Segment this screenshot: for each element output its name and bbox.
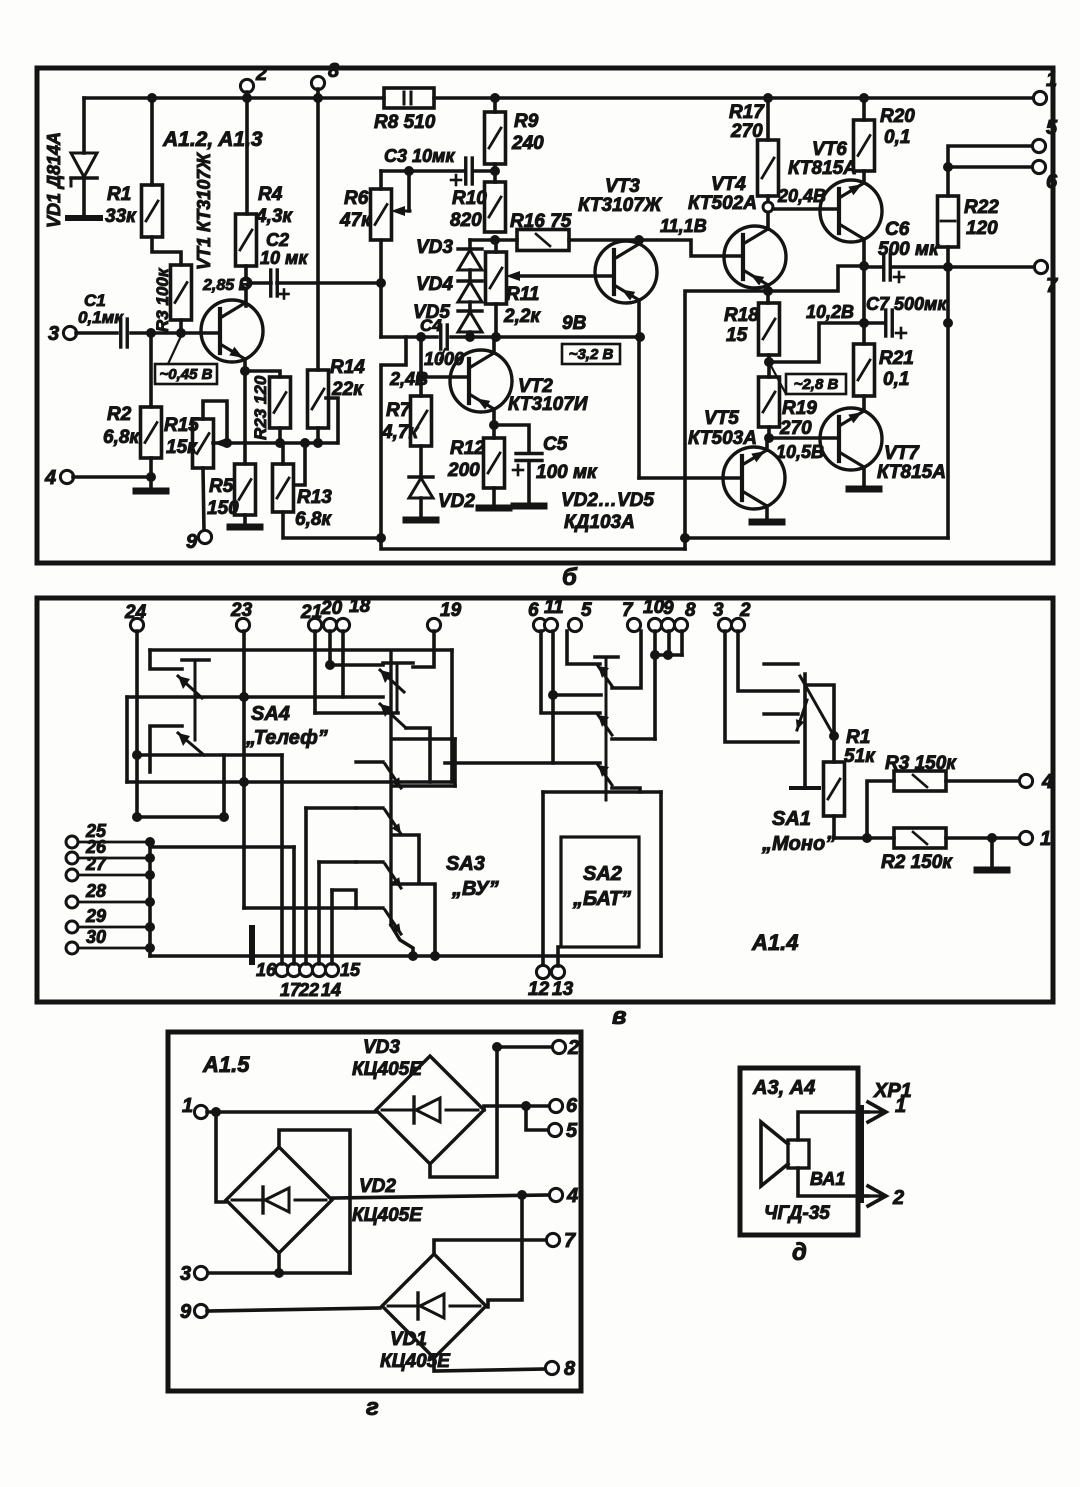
wire R6 wiper [407,171,411,211]
wire C2 left to VT1 collector node [250,281,271,285]
wire t18 vertical [341,631,345,697]
svg-text:5: 5 [1046,117,1058,139]
node rail-R20 [859,93,869,103]
node t11-695 [548,690,558,700]
terminal 20 (top) [323,618,336,631]
wire y808 [306,806,356,810]
svg-text:C5: C5 [543,434,568,455]
wire R11 bottom [494,304,498,337]
wire C7 left [864,321,883,325]
svg-text:28: 28 [85,881,106,901]
node t5 branch [521,1101,531,1111]
capacitor C5 100мк [516,452,542,455]
svg-text:7: 7 [564,1230,576,1252]
node t1 [211,1107,221,1117]
terminal 7 [1034,260,1047,273]
zener diode VD1 Д814А [82,98,86,153]
wire R6 bottom down feedback column [379,240,383,337]
resistor R2 6,8к [141,407,162,458]
wire output midpoint run [685,266,864,549]
wire t29 to common [78,926,150,929]
wire VD1 bottom to terminal 8 [434,1358,546,1371]
wire emitter to R12 [492,425,496,438]
wire R23 bottom [278,428,282,443]
svg-text:SA2: SA2 [583,863,622,885]
resistor R3 100к (vertical, rotated label) [171,265,192,320]
terminal 19 (top) [427,618,440,631]
connector XP1 pin 1 arrow [862,1110,884,1113]
svg-text:2,4В: 2,4В [389,369,428,389]
svg-text:КТ3107И: КТ3107И [508,394,588,415]
wire emitter node to R23 [245,371,280,377]
wire VT4 collector down [766,285,770,303]
svg-text:~0,45 В: ~0,45 В [160,366,213,383]
node R1 top [829,731,839,741]
svg-text:VD2: VD2 [359,1176,396,1197]
wire y817 [137,815,224,819]
wire t13 vertical [556,947,560,966]
wire SA3 return L3 [394,884,435,956]
svg-text:270: 270 [730,121,763,142]
wire R4 to VT1 collector [244,266,248,306]
wire stack common vertical [148,842,152,956]
terminal 4 (A1.5) [549,1188,562,1201]
svg-text:200: 200 [447,460,480,481]
svg-text:1: 1 [1040,828,1051,850]
node C3-R10 [490,166,500,176]
wire R22 top to terminals 5,6 [948,146,1033,196]
terminal 12 [536,965,549,978]
wire R1 bottom to R3 top [152,237,181,265]
node feedback join [376,533,386,543]
svg-text:R15: R15 [164,415,199,436]
wire x127 left loop [125,697,129,782]
svg-text:R4: R4 [258,184,283,205]
switch SA3 contact a [356,760,383,763]
node R11-bus [491,332,501,342]
svg-text:12: 12 [528,979,550,1000]
svg-text:4,7к: 4,7к [381,422,419,443]
terminal 23 (top) [236,618,249,631]
svg-text:18: 18 [349,596,371,617]
node t24-755 [132,750,142,760]
resistor R19 270 [759,377,780,427]
block A3,A4 border (section д) [740,1068,858,1235]
wire VT7 base [769,436,839,440]
ground (section в) [977,867,1007,874]
svg-text:10 мк: 10 мк [260,248,308,268]
resistor R22 120 [938,196,959,247]
bridge rectifier VD2 КЦ405Е [226,1147,332,1253]
wire VT2 base [421,375,469,379]
wire R7 to VD2 [419,446,423,477]
node R10 bottom [490,235,500,245]
wire t3 to C1 [76,331,117,335]
svg-text:R2: R2 [107,404,132,425]
wire R13 bottom to feedback line [283,512,381,538]
wire VT1 base column to R2 [149,333,153,407]
svg-text:КТ815А: КТ815А [788,158,857,179]
svg-text:VD2: VD2 [438,491,475,512]
wire VT3 emitter up [637,240,641,244]
node t28 [145,897,155,907]
node rail-t8 [313,93,323,103]
node rail-R9 [490,93,500,103]
wire R2 to terminal 1 [946,836,1020,840]
wire to ground [990,838,994,868]
wire VT3 base [520,274,614,278]
wire t10 vertical [653,631,657,739]
wire bottom feedback to x685 column [687,536,948,540]
resistor R23 120 (rotated label) [270,377,291,428]
resistor R3 150к [894,771,946,791]
voltage callout ~3,2В [562,344,620,364]
svg-text:8: 8 [328,60,340,82]
svg-text:6: 6 [1046,171,1058,193]
transistor VT5 КТ503А [723,447,785,509]
svg-text:240: 240 [511,133,544,154]
node VT3 emitter [634,235,644,245]
switch SA4 lever 2 [178,733,204,755]
terminal 6 (A1.5) [549,1099,562,1112]
svg-text:VD1: VD1 [390,1329,427,1350]
svg-text:КТ503А: КТ503А [688,428,757,449]
wire R18-R19 node [767,355,771,377]
wire R1 to rail [150,98,154,185]
wire C1 to VT1 base [131,331,220,335]
transistor VT2 КТ3107И [450,350,512,412]
svg-text:270: 270 [779,418,812,439]
ground below R2 [136,488,166,495]
svg-text:29: 29 [85,906,106,926]
wire R11 top [494,240,498,252]
node t25 [145,837,155,847]
wire VD5 to bus337 [468,332,472,337]
terminal 14 (bottom) [312,963,325,976]
wire R20 to VT6 collector [862,171,866,183]
svg-text:820: 820 [450,210,482,231]
wire t17 vertical [292,847,296,964]
terminal 5 (top) [568,618,581,631]
terminal 16 (bottom) [275,963,288,976]
svg-text:КЦ405Е: КЦ405Е [380,1351,451,1372]
svg-text:R10: R10 [452,188,487,209]
svg-text:R9: R9 [514,111,539,132]
wire C6 left [864,265,883,269]
svg-text:A1.4: A1.4 [751,930,798,955]
switch SA1 fixed contact stubs [764,662,798,665]
wire t15 vertical [330,890,334,964]
switch SA2 pole [605,657,608,800]
wire vertical x948 down to bottom feedback [946,267,950,538]
svg-text:ЧГД-35: ЧГД-35 [764,1203,830,1224]
switch SA3 pole [389,651,392,925]
svg-text:4: 4 [566,1185,578,1207]
wire C5 to ground [527,461,531,504]
svg-text:А3, А4: А3, А4 [752,1077,815,1099]
capacitor C7 500мк [884,310,887,336]
wire VD3 right to terminal 6 [484,1106,550,1110]
svg-text:VD1 Д814А: VD1 Д814А [44,132,64,228]
wire x150 upper segment [148,755,152,772]
wire terminal8 down to R14 [316,89,320,370]
wire t11 vertical [551,631,555,763]
capacitor C2 10мк [269,270,272,296]
wire t27 to common [78,874,150,877]
terminal 4 [60,470,73,483]
wire SA4 bus hook to contact1 [150,650,182,669]
wire R21 to VT7 collector [862,396,866,411]
svg-text:24: 24 [124,602,147,623]
switch SA3 contact b [356,806,383,809]
svg-text:2,2к: 2,2к [503,306,541,327]
terminal 26 [66,852,78,864]
svg-text:R16 75: R16 75 [510,211,572,232]
wire node to C7 jog [769,323,864,362]
wire to terminal 2 [497,1045,553,1049]
resistor R9 240 [485,112,506,164]
diode VD4 [468,270,472,281]
terminal 4 (right) [1019,774,1032,787]
svg-text:3: 3 [180,1263,191,1285]
svg-text:C4: C4 [420,316,442,335]
wire VT3 to VT4 base [639,240,742,256]
svg-text:VT6: VT6 [812,139,847,160]
svg-text:27: 27 [85,854,107,874]
svg-text:8: 8 [685,600,696,621]
svg-text:R6: R6 [344,188,369,209]
wire VD1 top to terminal 7 [434,1240,547,1254]
transistor VT7 КТ815А [820,408,882,470]
wire t23 bottom hook [244,906,356,910]
node t24-817 [132,812,142,822]
bridge rectifier VD1 КЦ405Е [382,1254,486,1358]
terminal 1 [1033,91,1046,104]
svg-text:~2,8 В: ~2,8 В [794,376,839,393]
svg-text:4: 4 [44,467,56,489]
node 224-817 [219,812,229,822]
wire R13 side tap [294,443,305,485]
node VD5-bus [465,332,475,342]
wire VT7 emitter to ground [862,467,866,487]
wire C3 right [473,169,495,173]
node t27 [145,870,155,880]
svg-text:21: 21 [300,602,322,623]
switch SA2 lever 3 [598,765,612,785]
svg-text:КЦ405Е: КЦ405Е [352,1205,423,1226]
svg-text:„Телеф”: „Телеф” [245,727,328,749]
wire VT6 emitter down [862,239,866,266]
wire R7 column top [419,337,423,396]
wire R15 bottom to terminal 9 [203,468,204,531]
wire SA2 top run [543,790,661,794]
terminal 18 (top) [336,618,349,631]
wire x224 riser [222,755,226,817]
wire bus y337 with C4 [381,335,437,339]
wire +supply top rail right of R8 [434,96,1034,100]
node R18-R19 [764,357,774,367]
resistor R7 4,7к [411,396,432,446]
svg-text:120: 120 [966,218,998,239]
svg-text:XP1: XP1 [873,1080,912,1102]
wire speaker to pin2 [798,1168,868,1196]
resistor R20 0,1 [854,120,875,171]
trimmer R15 15к [193,419,214,468]
terminal 21 (top) [308,618,321,631]
svg-text:13: 13 [552,979,574,1000]
wire R19 to VT5 collector [767,427,771,438]
wire y713 [315,711,398,715]
svg-text:19: 19 [440,600,462,621]
svg-text:R8 510: R8 510 [374,112,436,133]
wire R16 to VT3 emitter node [569,238,639,242]
svg-text:6: 6 [566,1095,578,1117]
wire t19 vertical [413,631,434,667]
node base-R2 [146,328,156,338]
svg-text:22: 22 [298,980,319,1000]
svg-text:1: 1 [1046,69,1057,91]
wire t9 vertical [667,631,671,655]
svg-text:SA1: SA1 [772,808,811,830]
svg-text:R14: R14 [330,357,365,378]
wire y697 long [127,695,383,699]
wire to C5 [494,425,529,453]
node bus-R14 [313,438,323,448]
wire speaker to pin1 [798,1112,868,1140]
wire t5 to contact 1 [567,631,600,664]
node VT3 collector-bus [635,332,645,342]
terminal 10 (top) [648,618,661,631]
svg-text:R23 120: R23 120 [251,375,270,440]
wire VD2 right to terminal 4 [332,1195,550,1198]
svg-text:6,8к: 6,8к [103,427,140,448]
terminal 9 (top) [661,618,674,631]
svg-text:КД103А: КД103А [564,512,635,533]
switch SA4 contact 2 fixed bar [150,726,182,755]
node SA3-bottom bus [408,951,418,961]
wire y862 [319,860,356,864]
terminal 3 (A1.5) [194,1266,207,1279]
svg-text:10: 10 [643,597,665,618]
svg-text:VT5: VT5 [704,408,739,429]
switch SA4 contact 1 T-bar and pole [182,658,209,662]
block A1.2/A1.3 outer border (section б) [37,68,1053,563]
svg-text:КТ815А: КТ815А [877,462,946,483]
node rail-R1 junction [147,93,157,103]
svg-text:3: 3 [48,323,59,345]
resistor R10 820 [485,182,506,232]
svg-text:VT1 КТ3107Ж: VT1 КТ3107Ж [194,152,214,270]
wire SA3 return U1 bottom [392,784,455,788]
wire C2 right to feedback column [277,281,381,285]
wire VD2 bottom stem [277,1253,281,1273]
wire t1 to VD3 left [207,1110,376,1114]
node VT1 emitter [240,366,250,376]
wire y655 tie [655,653,682,657]
node R6 wiper join [404,166,414,176]
wire C3 corner to R6 [379,171,383,189]
svg-text:47к: 47к [339,210,372,231]
svg-text:20: 20 [320,598,343,619]
wire VT2 emitter down [492,409,496,425]
svg-text:8: 8 [564,1358,576,1380]
svg-text:VD4: VD4 [416,274,453,295]
wire SA4 right vertical [450,650,454,782]
node C7-R21 column [859,318,869,328]
wire t4 [73,475,151,479]
resistor R11 2,2к (trimmer) [486,252,507,304]
terminal 30 [66,942,78,954]
switch SA1 lever [800,676,834,736]
node t4 branch [517,1190,527,1200]
wire R17 to VT4 [766,196,770,226]
wire t8 vertical [680,631,684,655]
loudspeaker BA1 [788,1140,809,1168]
switch SA4 lever 3 [380,670,404,692]
connector XP1 bar [858,1108,864,1200]
terminal 1 (A1.5) [194,1105,207,1118]
switch SA4 lever 4 [380,704,406,728]
node t4 junction [146,472,156,482]
terminal 2 [240,79,253,92]
wire R3 bottom to base node [179,320,183,333]
chassis bar [249,928,255,962]
node C4-R7 column [416,332,426,342]
terminal 8 [311,76,324,89]
terminal 22 (bottom) [299,963,312,976]
svg-text:„Моно”: „Моно” [761,833,835,855]
wire SA2 left vertical (t12) [541,792,545,966]
wire common to bottom bus [150,954,661,958]
terminal 15 (bottom) [325,963,338,976]
svg-text:51к: 51к [844,746,876,767]
svg-text:10,5В: 10,5В [776,442,824,462]
wire t25 to common [78,841,150,844]
capacitor C4 1000 [439,325,442,349]
svg-text:2,85 В: 2,85 В [202,277,250,294]
resistor R2 150к [894,828,946,848]
wire t6 to contact 2 [541,631,600,713]
terminal 29 [66,921,78,933]
wire emitter to R5 [243,371,247,464]
node VD2 bottom [274,1268,284,1278]
transistor VT3 КТ3107Ж [595,241,657,303]
svg-text:500 мк: 500 мк [878,239,940,260]
node t26 [145,853,155,863]
wire t26 to common [78,857,150,860]
wire terminal2 to rail and R4 [245,92,249,214]
wire contact2 return to t10 [612,737,655,741]
wire t16 vertical [280,755,284,964]
svg-text:2: 2 [739,600,751,621]
svg-text:0,1мк: 0,1мк [78,308,124,327]
wire VD2 bottom to t3 [207,1271,350,1275]
svg-text:6,8к: 6,8к [295,509,332,530]
svg-text:R13: R13 [297,487,332,508]
svg-text:R5: R5 [209,476,234,497]
node C2 join [376,278,386,288]
node 2,85В measure point [241,278,251,288]
svg-text:VD2…VD5: VD2…VD5 [561,490,654,511]
wire t21 vertical [313,631,317,713]
svg-text:10,2В: 10,2В [806,302,854,322]
wire VD3 bottom loop to t2 column [430,1047,497,1177]
svg-text:2: 2 [255,63,267,85]
terminal 13 [551,965,564,978]
svg-text:VT4: VT4 [711,174,746,195]
svg-text:7: 7 [622,600,634,621]
svg-text:C2: C2 [266,230,289,250]
